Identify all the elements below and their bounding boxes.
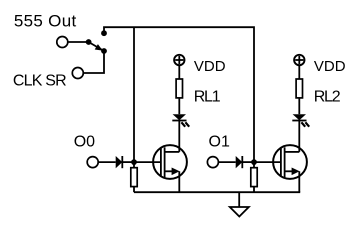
- svg-text:CLK SR: CLK SR: [13, 72, 66, 89]
- resistor RL1: [176, 79, 182, 98]
- wire D2 to gate node: [242, 161, 254, 163]
- wire gate lead Q1: [134, 161, 161, 163]
- resistor R1 pulldown: [131, 168, 137, 187]
- resistor R2 pulldown: [251, 168, 257, 187]
- svg-text:O0: O0: [74, 133, 95, 150]
- svg-text:O1: O1: [209, 133, 230, 150]
- node switch throw to clock line: [101, 30, 107, 36]
- wire Q1 source to ground rail: [178, 171, 180, 192]
- node switch pole: [101, 48, 107, 54]
- svg-text:RL1: RL1: [194, 89, 221, 106]
- diode D2: [236, 156, 243, 168]
- node O1 gate: [251, 159, 257, 165]
- power VDD1: [174, 55, 184, 79]
- wire R1 to ground rail: [133, 187, 135, 193]
- wire gate lead Q2: [254, 161, 281, 163]
- svg-text:VDD: VDD: [314, 58, 346, 75]
- power VDD2: [294, 55, 304, 79]
- wire O1 to diode D2: [218, 161, 235, 163]
- wire 555 Out to switch: [68, 41, 89, 43]
- svg-text:VDD: VDD: [194, 58, 226, 75]
- wire O0 to diode D1: [98, 161, 116, 163]
- wire LED2 to Q2 drain: [298, 121, 300, 152]
- svg-text:RL2: RL2: [314, 89, 341, 106]
- transistor Q1: [153, 145, 187, 179]
- terminal O0: [87, 157, 98, 168]
- wire RL1 to LED1: [178, 98, 180, 114]
- wire clock top line: [104, 27, 254, 162]
- wire Q2 source to ground rail: [298, 171, 300, 192]
- terminal 555 Out: [57, 37, 68, 48]
- transistor Q2: [273, 145, 307, 179]
- diode D1: [116, 156, 123, 168]
- node O0 gate: [131, 159, 137, 165]
- wire RL2 to LED2: [298, 98, 300, 114]
- wire switch pole to CLK SR: [84, 51, 104, 73]
- wire ground rail: [134, 191, 300, 193]
- resistor RL2: [296, 79, 302, 98]
- LED LED2: [292, 114, 309, 127]
- terminal CLK SR: [72, 68, 83, 79]
- wire R2 to ground rail: [253, 187, 255, 193]
- switch SW1 lever: [89, 42, 104, 51]
- LED LED1: [172, 114, 189, 127]
- svg-text:555 Out: 555 Out: [14, 11, 77, 30]
- wire gate node to pulldown R2: [253, 162, 255, 168]
- wire D1 to gate node: [122, 161, 134, 163]
- terminal O1: [207, 157, 218, 168]
- wire LED1 to Q1 drain: [178, 121, 180, 152]
- node switch throw 555 Out: [86, 39, 92, 45]
- wire gate node to pulldown R1: [133, 162, 135, 168]
- ground: [230, 192, 249, 216]
- wire gate branch to O0 node: [133, 27, 135, 162]
